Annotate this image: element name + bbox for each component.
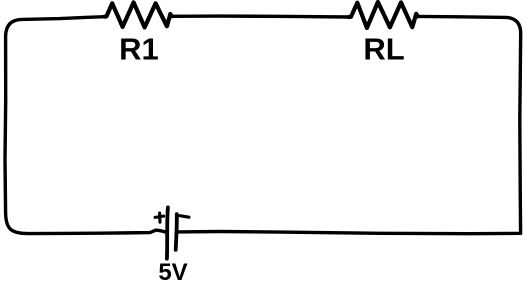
wire: battery positive terminal to left side, up and along top to R1 <box>5 17 167 234</box>
battery 5V: long positive plate <box>167 207 168 258</box>
wire: RL along top, down right side, along bottom to battery negative terminal <box>178 16 521 233</box>
resistor RL <box>349 2 418 28</box>
battery 5V: short negative plate <box>176 214 177 250</box>
battery polarity: plus sign <box>155 213 164 222</box>
svg-text:R1: R1 <box>119 32 159 67</box>
battery polarity: minus sign <box>180 216 189 218</box>
svg-text:RL: RL <box>363 32 404 67</box>
wire: top segment between R1 and RL <box>172 14 349 18</box>
resistor R1 <box>105 2 172 27</box>
svg-text:5V: 5V <box>158 259 187 286</box>
